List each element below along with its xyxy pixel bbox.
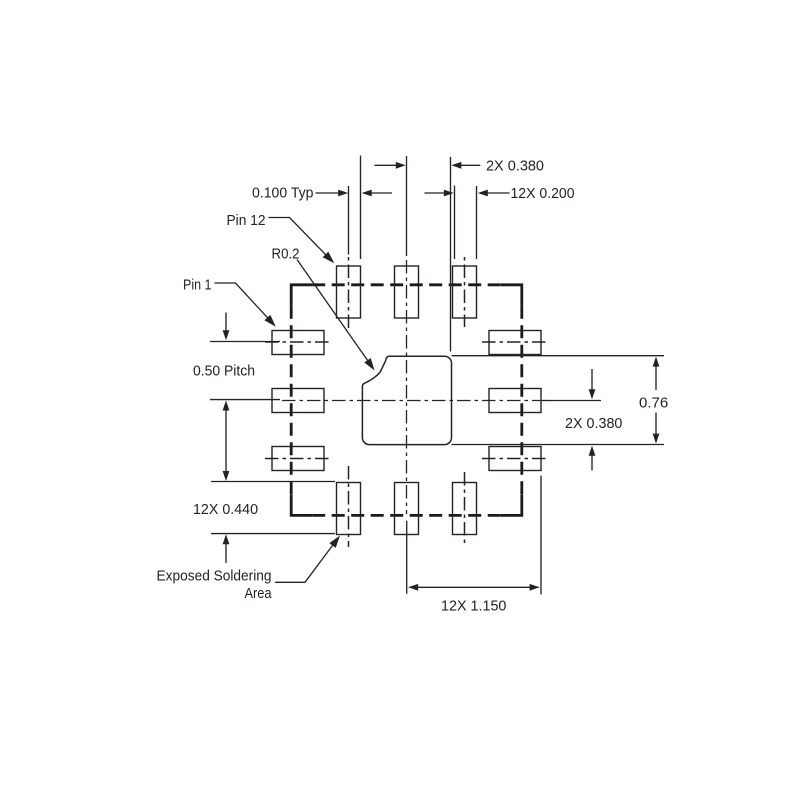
- leader arrow to pin 1 pad: [215, 283, 269, 319]
- pin 5 pad (bottom row): [395, 483, 419, 535]
- extension line: pin 12 pad right edge: [360, 156, 362, 260]
- svg-text:2X 0.380: 2X 0.380: [565, 415, 622, 432]
- main vertical centerline: [406, 260, 408, 514]
- centerline pad row top (pins 1/9): [265, 341, 332, 343]
- dimension 0.50 Pitch arrows: [225, 313, 227, 332]
- svg-text:Pin 12: Pin 12: [227, 212, 266, 229]
- exposed thermal pad (pin 13) with R0.2 pin-1 chamfer: [362, 356, 451, 444]
- dimension 2X 0.380 (right) arrows: [591, 369, 593, 390]
- pin 1 pad (left column): [272, 331, 324, 355]
- pin 4 pad (bottom row): [337, 483, 361, 535]
- main horizontal centerline: [282, 400, 548, 402]
- extension line: package vertical centerline (solid top): [406, 156, 408, 256]
- pin 7 pad (right column): [489, 447, 541, 471]
- extension line: bottom pads top edge (12X 0.440): [211, 481, 335, 483]
- pin 9 pad (right column): [489, 331, 541, 355]
- leader arrow to exposed soldering area (pin 4 pad corner): [275, 544, 334, 582]
- svg-text:0.50 Pitch: 0.50 Pitch: [193, 363, 255, 380]
- extension line: bottom pads bottom edge (12X 0.440): [211, 533, 335, 535]
- svg-text:Area: Area: [245, 585, 272, 602]
- extension line: package centerline below (12X 1.150): [406, 521, 408, 594]
- centerline pad column left (pins 12/4): [348, 257, 350, 329]
- extension line: pin 10 pad left edge: [454, 186, 456, 260]
- svg-text:Pin 1: Pin 1: [183, 277, 212, 294]
- pin 8 pad (right column): [489, 389, 541, 413]
- pin 11 pad (top row): [395, 266, 419, 318]
- pin 12 pad (top row): [337, 266, 361, 318]
- extension line: pin 2 pad centerline (0.50 pitch): [210, 399, 280, 401]
- extension line: pin 1 pad centerline (0.50 pitch): [210, 341, 280, 343]
- dimension 12X 0.440 lower arrow: [223, 534, 230, 544]
- leader arrow to exposed pad chamfer R0.2: [297, 260, 369, 362]
- dimension 12X 0.200 arrows (pad width): [425, 192, 445, 194]
- extension line: exposed pad bottom edge (0.76 / 2X 0.380): [452, 444, 665, 446]
- extension line: pin 12 pad centerline (0.100 Typ): [348, 186, 350, 255]
- svg-text:0.100 Typ: 0.100 Typ: [252, 185, 314, 202]
- svg-text:0.76: 0.76: [639, 395, 668, 412]
- pin 2 pad (left column): [272, 389, 324, 413]
- svg-text:12X 1.150: 12X 1.150: [441, 598, 506, 615]
- extension line: exposed pad right edge (2X 0.380): [450, 157, 452, 352]
- extension line: exposed pad top edge (0.76): [452, 355, 665, 357]
- centerline pad column right (pins 10/6): [464, 257, 466, 327]
- dimension 2X 0.380 (top): centerline to exposed pad edge: [375, 164, 397, 166]
- dimension 0.100 Typ arrows: [316, 192, 339, 194]
- svg-text:R0.2: R0.2: [272, 246, 300, 263]
- centerline pad row bottom (pins 3/7): [265, 458, 332, 460]
- dimension 12X 1.150 line and arrows: [410, 586, 539, 588]
- package outline dashed square U1 body: [291, 285, 522, 516]
- extension line: right pads outer edge (12X 1.150): [540, 476, 542, 595]
- svg-text:12X 0.440: 12X 0.440: [193, 501, 258, 518]
- leader arrow to pin 12 pad: [269, 218, 327, 256]
- extension line: pin 10 pad right edge (12X 0.200): [476, 186, 478, 259]
- dimension 0.76 (exposed pad height): [653, 357, 660, 367]
- extension line: horizontal centerline solid (right): [543, 400, 601, 402]
- pin 10 pad (top row): [453, 266, 477, 318]
- svg-text:Exposed Soldering: Exposed Soldering: [157, 568, 272, 585]
- svg-text:2X 0.380: 2X 0.380: [486, 158, 544, 175]
- pin 6 pad (bottom row): [453, 483, 477, 535]
- pin 3 pad (left column): [272, 447, 324, 471]
- svg-text:12X 0.200: 12X 0.200: [511, 185, 575, 202]
